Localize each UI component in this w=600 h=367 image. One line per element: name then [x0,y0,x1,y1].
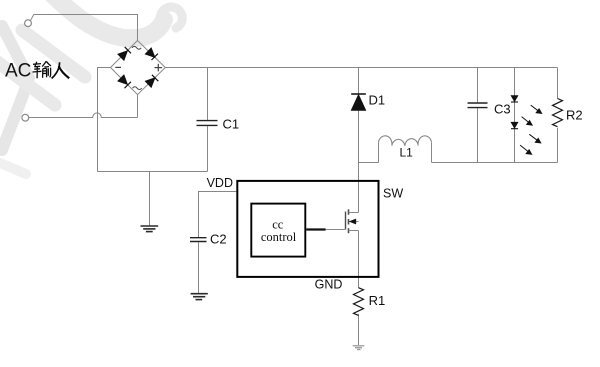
svg-text:R1: R1 [369,293,386,308]
svg-text:C1: C1 [223,117,240,132]
plus mark [155,64,163,72]
wire SW node to inductor and output bottom rail [359,142,558,162]
svg-text:R2: R2 [566,108,583,123]
hanzi 输 (drawn strokes) [33,61,51,78]
svg-text:SW: SW [383,187,403,201]
wire gate lead (thick from box) [306,228,325,230]
bridge diode (left-top edge) [118,47,131,60]
inductor L1 [379,136,432,146]
svg-text:D1: D1 [369,92,386,107]
diode D1 [351,94,366,110]
wire bottom return rail [98,171,208,173]
wire gate lead (thin) [326,229,345,231]
svg-text:AC: AC [5,61,31,82]
AC tilde mark bottom [133,87,142,90]
wire C3 leads [477,68,479,163]
svg-text:C3: C3 [494,102,511,117]
wire ground tap [149,172,151,226]
ground (below C2) [191,294,208,300]
ground (below R1) [353,346,365,350]
cc control box [251,204,305,257]
svg-text:GND: GND [315,278,343,292]
bridge diode (top-right edge) [145,48,158,60]
resistor R1 [354,288,364,316]
wire top terminal to bridge AC node [30,15,137,41]
wire R2 leads [557,68,559,163]
ground (below bridge) [141,226,159,232]
capacitor C2 [190,238,207,242]
wire bridge minus output to bottom rail [98,68,111,172]
hanzi 入 (drawn strokes) [52,62,70,78]
LED emission arrows [520,105,542,154]
wire bottom terminal to bridge with hop over vertical wire [29,95,138,118]
MOSFET Q1 [346,209,359,233]
bridge rectifier [111,41,166,95]
bridge diode (bottom-right edge) [145,75,158,87]
wire LED string vertical [514,68,516,163]
LED D3 [511,122,518,129]
svg-text:VDD: VDD [207,176,233,190]
svg-text:L1: L1 [400,146,414,160]
resistor R2 [553,99,563,127]
wire DC+ top rail [165,67,557,69]
LED D2 [511,96,518,103]
watermark strokes (decorative, unlabeled group start) [0,0,182,174]
wire C1 leads [207,68,209,172]
svg-text:control: control [261,230,297,244]
controller block U1 [237,181,378,277]
terminal J2 (AC input bottom) [22,114,29,121]
terminal J1 (AC input top) [25,20,32,27]
bridge diode (left-bottom edge) [118,75,131,88]
capacitor C1 [197,121,218,126]
wire VDD net [199,192,237,294]
wire D1 / SW vertical [358,68,360,346]
AC tilde mark top [132,46,141,49]
minus mark [115,66,121,68]
capacitor C3 [468,103,488,108]
svg-text:C2: C2 [210,231,227,246]
